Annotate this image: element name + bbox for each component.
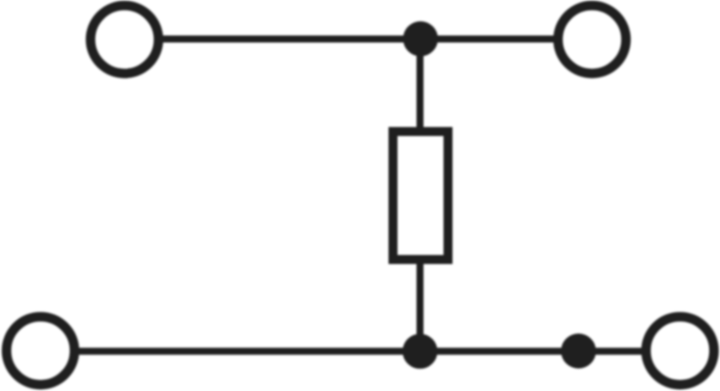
junction node bottom-right [561, 334, 596, 369]
wire vertical lower: resistor to bottom junction [417, 262, 424, 351]
wire top-left: terminal to junction [160, 36, 421, 43]
wire bottom-middle: junction to junction [420, 348, 578, 355]
wire top-right: junction to terminal [420, 36, 557, 43]
terminal circle bottom-left [7, 317, 75, 385]
wire vertical upper: junction to resistor [417, 39, 424, 129]
junction node bottom-center [403, 334, 438, 369]
junction node top [403, 21, 438, 56]
terminal circle top-right [558, 6, 626, 74]
wire bottom-right: junction to terminal [578, 348, 644, 355]
resistor body (component rectangle) [393, 132, 448, 260]
wire bottom-left: terminal to junction [76, 348, 420, 355]
terminal circle bottom-right [646, 317, 714, 385]
terminal circle top-left [91, 6, 159, 74]
